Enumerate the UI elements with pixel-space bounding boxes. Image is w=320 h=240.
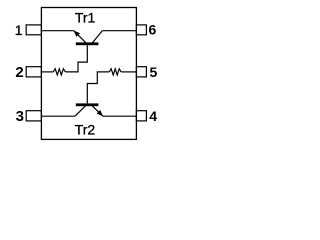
transistor Tr2 collector	[75, 105, 86, 116]
wire Tr1 base lead with jog	[65, 45, 87, 72]
pin 2 pad	[26, 67, 41, 77]
svg-text:4: 4	[149, 108, 157, 124]
resistor R2	[109, 69, 121, 75]
svg-text:5: 5	[150, 64, 158, 80]
transistor Tr2 emitter	[92, 106, 103, 117]
wire Tr1 collector to pin6	[102, 30, 136, 32]
wire pin3 to Tr2 collector	[41, 115, 75, 117]
svg-text:Tr1: Tr1	[75, 9, 96, 25]
transistor Tr2 base bar	[76, 103, 99, 106]
package outline	[41, 8, 136, 140]
pin 6 pad	[136, 25, 146, 35]
transistor Tr1 base bar	[76, 42, 99, 45]
wire R2 to Tr2 base with jog	[87, 72, 109, 104]
pin 1 pad	[26, 25, 41, 35]
wire R1 to pin2	[41, 71, 53, 73]
pin 4 pad	[136, 111, 146, 121]
pin 5 pad	[136, 67, 146, 77]
resistor R1	[53, 69, 65, 75]
svg-text:Tr2: Tr2	[75, 121, 96, 137]
transistor Tr1 collector	[92, 31, 102, 43]
transistor Tr1 emitter	[74, 31, 86, 43]
svg-text:1: 1	[15, 22, 23, 38]
wire pin5 to R2	[121, 71, 136, 73]
pin 3 pad	[26, 111, 41, 121]
wire Tr2 emitter to pin4	[103, 115, 136, 117]
svg-text:3: 3	[16, 108, 24, 125]
svg-text:2: 2	[15, 64, 23, 81]
svg-text:6: 6	[149, 22, 157, 38]
wire pin1 to Tr1 emitter	[41, 30, 73, 32]
